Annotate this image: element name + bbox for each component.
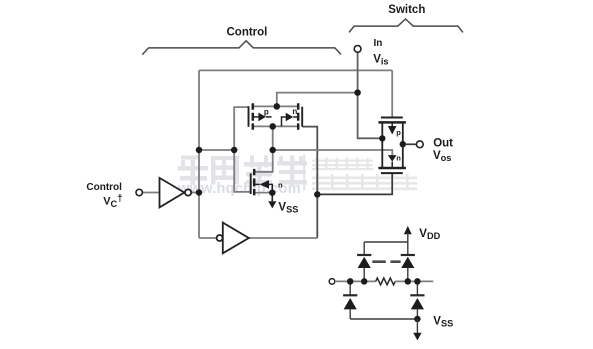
ground VSS arrow (protection) — [416, 319, 418, 333]
node bus left — [196, 147, 203, 154]
switch brace — [349, 19, 463, 32]
diode D4 (lower right) — [410, 281, 424, 319]
wire inverter2 out — [249, 237, 317, 239]
svg-text:n: n — [292, 107, 297, 116]
wire inverter1 input — [142, 192, 159, 194]
arrow n (switch) — [388, 155, 397, 162]
svg-text:n: n — [396, 153, 401, 162]
watermark divider — [303, 154, 305, 190]
wire out — [406, 143, 417, 145]
node bottom gate — [314, 191, 321, 198]
node switch in — [379, 135, 385, 141]
wire switch top gate — [391, 70, 393, 117]
switch transmission gate U3 — [381, 118, 403, 174]
wire pair p-gate — [234, 107, 251, 192]
svg-text:In: In — [374, 38, 383, 49]
node bus p-gate — [231, 147, 238, 154]
watermark big char 1 — [178, 156, 208, 186]
node bus right — [269, 147, 276, 154]
wire protection input — [335, 280, 376, 282]
node dots — [196, 89, 406, 197]
svg-text:n: n — [278, 181, 283, 190]
transistor Q2 n-channel (pair right) — [297, 103, 300, 130]
control brace — [142, 41, 341, 55]
diode D3 (lower left) — [343, 281, 357, 319]
watermark small row 1 — [312, 158, 373, 171]
svg-text:Control: Control — [227, 27, 268, 39]
wire inverter2 input — [199, 237, 217, 239]
watermark big char 2 — [211, 156, 239, 185]
terminal In — [354, 46, 361, 53]
terminal VC — [136, 189, 142, 195]
transistor Q3 n-channel (to VSS) — [250, 173, 252, 194]
node pair bottom — [269, 123, 276, 129]
wire pair bottom drop — [254, 126, 273, 171]
wire pair top to In — [277, 93, 358, 107]
protection network: power VDD arrow — [404, 226, 412, 234]
node In/pair-top — [354, 89, 361, 96]
wire pair n-gate — [302, 127, 317, 238]
watermark big char 4 — [277, 156, 307, 186]
resistor R1 — [376, 278, 395, 285]
node protection dots — [347, 278, 421, 322]
arrow p (switch) — [391, 122, 393, 126]
inverter U2 — [217, 223, 249, 254]
wire protection output — [395, 280, 433, 282]
wire top rail — [199, 69, 392, 71]
wire protection bottom rail — [350, 318, 417, 320]
wire switch bottom gate — [317, 173, 392, 194]
svg-text:Switch: Switch — [388, 4, 425, 16]
wire In vertical — [358, 52, 383, 138]
node inverter1 out — [196, 189, 203, 196]
node Q3 source — [269, 189, 276, 196]
inverter U1 — [160, 178, 192, 208]
node pair top — [274, 103, 281, 110]
svg-text:p: p — [396, 128, 401, 137]
wire protection top rail — [364, 241, 408, 243]
watermark small row 2 — [312, 174, 417, 190]
svg-text:Out: Out — [433, 137, 453, 149]
svg-text:VSS: VSS — [278, 202, 298, 215]
diode D2 (upper right) — [401, 242, 415, 281]
terminal protection input — [329, 279, 335, 285]
watermark big char 3 — [244, 156, 274, 186]
node switch out — [400, 141, 406, 147]
dashed distributed line — [372, 260, 400, 263]
ground VSS arrow (Q3) — [271, 193, 273, 202]
wire left box vertical — [198, 70, 200, 238]
transistor Q1 p-channel (pair left) — [248, 106, 250, 127]
diode D1 (upper left) — [357, 242, 371, 281]
wire bus right to n body — [273, 150, 393, 155]
svg-text:p: p — [264, 107, 269, 116]
wire inverter1 output — [191, 192, 199, 194]
svg-text:Control: Control — [86, 182, 122, 193]
wire bus left — [199, 149, 234, 151]
terminal Out — [416, 141, 423, 148]
